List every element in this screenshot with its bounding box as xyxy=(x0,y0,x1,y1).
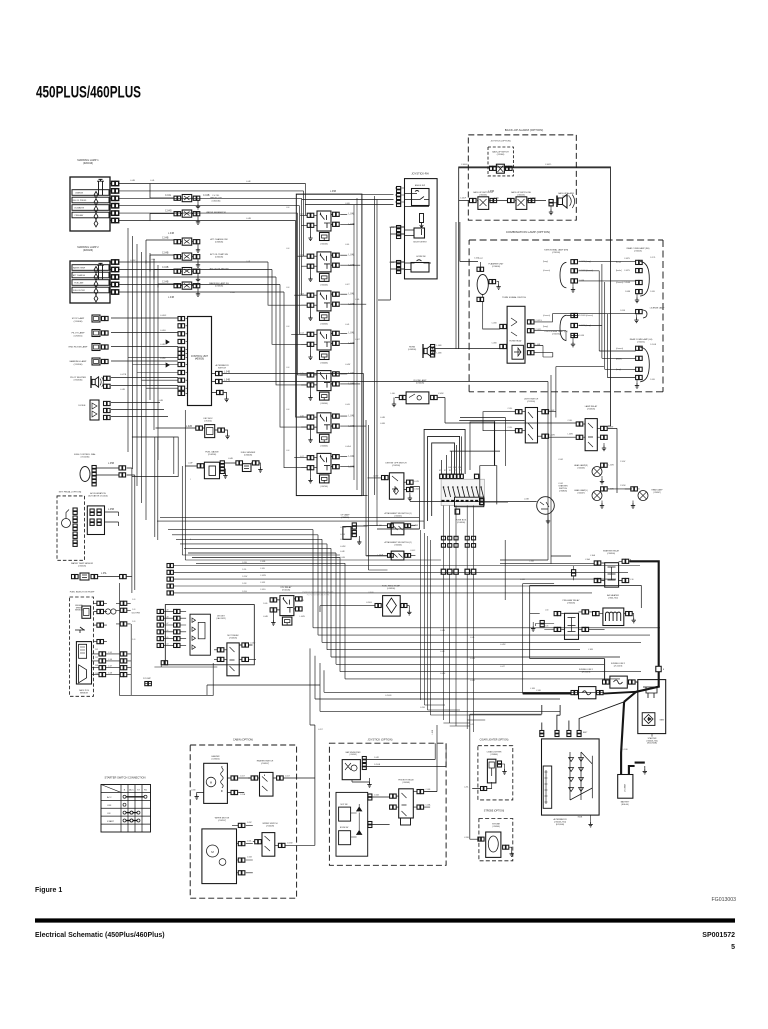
key pedal option dashed box xyxy=(57,491,85,561)
svg-text:L.05LB: L.05LB xyxy=(366,602,372,604)
icu relay (#50106) xyxy=(263,586,305,625)
key box unit xyxy=(186,418,230,439)
svg-text:L.04: L.04 xyxy=(286,450,289,452)
svg-text:CONTROL UNIT: CONTROL UNIT xyxy=(191,356,209,358)
relay column right wires xyxy=(331,214,366,466)
svg-text:C.08: C.08 xyxy=(165,616,168,618)
back-up alarm option dashed box xyxy=(468,128,576,220)
pld bus verticals xyxy=(421,530,542,715)
svg-text:L.04LA: L.04LA xyxy=(345,445,351,448)
fusible link 1 (#2006) xyxy=(523,669,636,699)
svg-text:START: START xyxy=(107,820,115,823)
footer rule bar xyxy=(35,918,735,922)
svg-text:C.50W: C.50W xyxy=(620,461,626,463)
svg-text:C.05GB [chassis]: C.05GB [chassis] xyxy=(579,315,593,317)
splice connector above preheat xyxy=(572,570,576,573)
relay START RELAY (#50406) xyxy=(300,330,355,365)
wire dr to aux relay xyxy=(154,661,217,667)
svg-text:(#50306): (#50306) xyxy=(74,380,83,382)
svg-text:L.04B: L.04B xyxy=(340,534,346,536)
svg-text:(#50307): (#50307) xyxy=(261,763,269,765)
svg-text:L.04W: L.04W xyxy=(160,358,166,360)
svg-text:C.05GB: C.05GB xyxy=(624,282,631,284)
svg-text:(#50606): (#50606) xyxy=(320,445,328,447)
strobe option dashed box xyxy=(464,811,514,861)
svg-text:(E11,E06): (E11,E06) xyxy=(556,824,565,826)
op lamp (#30306) xyxy=(341,514,368,545)
relay column bottom edge wires xyxy=(296,495,367,497)
svg-text:L.04B: L.04B xyxy=(230,292,236,294)
svg-text:C.09B: C.09B xyxy=(260,561,266,563)
svg-text:C.06LF: C.06LF xyxy=(460,198,467,200)
svg-text:L.05L: L.05L xyxy=(101,573,107,575)
svg-text:L.30B: L.30B xyxy=(588,649,594,651)
svg-text:L.30: L.30 xyxy=(630,579,634,581)
svg-text:STARTER SWITCH CONNECTION: STARTER SWITCH CONNECTION xyxy=(105,776,146,780)
svg-text:L.05B: L.05B xyxy=(108,509,114,511)
svg-text:L.04: L.04 xyxy=(286,248,289,250)
wiper bank vertical runs to bottom xyxy=(443,720,485,726)
left bundle horizontal stubs to pins xyxy=(128,357,178,388)
joystick-rh horn switch lower xyxy=(405,256,432,272)
horn wire to turn signal switch xyxy=(435,349,500,353)
svg-text:(#1006): (#1006) xyxy=(204,421,211,423)
svg-text:C.06TL: C.06TL xyxy=(545,164,552,166)
load MARKING LAMP xyxy=(70,358,108,366)
svg-text:(#30256): (#30256) xyxy=(517,194,525,196)
svg-text:(#50206): (#50206) xyxy=(208,454,217,456)
svg-text:(#300-T30): (#300-T30) xyxy=(608,597,618,599)
eng control dial (#51006) xyxy=(74,453,135,486)
relay HEAT RELAY (#50606) xyxy=(300,413,355,448)
svg-text:(#20406): (#20406) xyxy=(416,383,425,385)
battery (E04) xyxy=(618,702,647,806)
trunk verticals center xyxy=(155,410,186,560)
svg-text:L.04B: L.04B xyxy=(168,297,174,299)
water temp sensor xyxy=(71,562,132,580)
svg-text:BACK-UP ALARM (OPTION): BACK-UP ALARM (OPTION) xyxy=(505,128,544,132)
svg-text:L.20B: L.20B xyxy=(464,837,469,839)
svg-text:L.05T: L.05T xyxy=(318,729,324,731)
turn signal lamp lh xyxy=(544,313,593,346)
bus lower extra horizontals xyxy=(207,685,604,711)
svg-text:C.06B: C.06B xyxy=(579,335,585,337)
svg-text:C.05: C.05 xyxy=(108,652,112,654)
joystick option feed verticals xyxy=(424,725,446,792)
svg-text:(#50508): (#50508) xyxy=(402,782,410,784)
svg-text:(#50408): (#50408) xyxy=(266,825,274,827)
starter relay B+ cable xyxy=(629,561,658,692)
wire run lamp area bottom xyxy=(366,529,419,556)
svg-text:[lamp]: [lamp] xyxy=(543,261,548,263)
svg-text:(#50206): (#50206) xyxy=(320,284,328,286)
svg-text:L.03B: L.03B xyxy=(524,499,529,501)
svg-text:[brake]: [brake] xyxy=(616,270,622,272)
svg-text:L.04B: L.04B xyxy=(437,345,443,347)
wires loads to control unit pins xyxy=(111,318,178,417)
svg-text:L.05LB: L.05LB xyxy=(368,592,374,594)
svg-text:(#50406): (#50406) xyxy=(320,363,328,365)
svg-text:(E04-04): (E04-04) xyxy=(621,804,629,806)
svg-text:ATT OIL FILTER SW: ATT OIL FILTER SW xyxy=(209,268,228,271)
load STOP LAMP xyxy=(72,315,108,323)
svg-text:L.30A: L.30A xyxy=(590,554,596,557)
svg-text:[chassis]: [chassis] xyxy=(616,282,623,284)
water separator switch cluster xyxy=(165,210,226,224)
svg-text:L.04W: L.04W xyxy=(130,260,136,262)
svg-text:L.04L: L.04L xyxy=(470,637,475,639)
svg-text:C.09G: C.09G xyxy=(260,589,266,591)
svg-text:CHARGE: CHARGE xyxy=(75,192,84,195)
svg-text:L.06L: L.06L xyxy=(355,299,360,301)
svg-text:[brake]: [brake] xyxy=(616,359,622,361)
svg-text:FG013003: FG013003 xyxy=(711,897,736,903)
B+ cable inline connector xyxy=(656,666,661,671)
svg-text:C.09F: C.09F xyxy=(242,583,247,585)
svg-text:L.07B: L.07B xyxy=(414,481,419,483)
fuel pump connector column 2 xyxy=(116,601,140,626)
svg-text:L.06W: L.06W xyxy=(568,433,573,435)
control unit left pin connectors xyxy=(178,317,188,396)
thick feed from fusible junction xyxy=(624,692,636,702)
svg-text:(#50506): (#50506) xyxy=(394,544,402,546)
center long feeders xyxy=(364,500,388,570)
fuel pump connector column 1 xyxy=(93,601,107,644)
power feed solid box backup area xyxy=(459,167,611,426)
joystick option switch block xyxy=(336,792,390,856)
right trunk verticals xyxy=(364,196,378,570)
svg-text:(#20306): (#20306) xyxy=(497,154,505,156)
light switch area enclosure lines xyxy=(460,418,505,467)
attachment sw switch 2 xyxy=(367,541,416,560)
svg-text:L.05GB: L.05GB xyxy=(385,695,392,697)
alternator feed wires xyxy=(542,702,624,731)
svg-text:C.09G: C.09G xyxy=(242,591,248,593)
turn signal switch output wires xyxy=(535,314,567,357)
svg-text:[chassis]: [chassis] xyxy=(616,348,623,350)
pre-heat relay (#30506) xyxy=(545,599,605,639)
svg-text:HORN RELAY: HORN RELAY xyxy=(509,340,522,343)
switch cluster ATT OIL TEMP SW xyxy=(162,253,228,268)
svg-text:C.05B: C.05B xyxy=(620,310,626,312)
svg-text:(#50306): (#50306) xyxy=(587,408,595,410)
starter switch connection table xyxy=(101,776,151,833)
svg-text:C.05B: C.05B xyxy=(492,323,498,325)
svg-text:WATER TEMP: WATER TEMP xyxy=(73,267,86,270)
joystick option dashed box xyxy=(329,738,446,866)
svg-text:L.05: L.05 xyxy=(470,724,474,726)
back-up alarm speaker (#20206) xyxy=(549,192,575,215)
diode symbols on control unit inputs xyxy=(166,340,169,367)
load PILOT LAMP xyxy=(72,330,109,338)
svg-text:C.04B: C.04B xyxy=(162,238,169,240)
svg-text:L.50W: L.50W xyxy=(438,393,444,395)
svg-text:L.05: L.05 xyxy=(545,626,548,628)
svg-text:L.04MF: L.04MF xyxy=(340,527,347,529)
svg-text:L.04B: L.04B xyxy=(158,400,164,402)
svg-text:L.04: L.04 xyxy=(286,326,289,328)
svg-text:PRESS SW: PRESS SW xyxy=(210,198,222,200)
priority relay (#50508) xyxy=(390,779,437,826)
svg-text:C.06B: C.06B xyxy=(492,343,498,345)
svg-text:L.04F: L.04F xyxy=(246,181,252,183)
svg-text:C.09TL: C.09TL xyxy=(624,258,630,260)
switch cluster ATT CHARGE SW xyxy=(162,238,228,253)
svg-text:L.04: L.04 xyxy=(286,367,289,369)
svg-text:C.06TL: C.06TL xyxy=(530,198,536,200)
svg-text:C.09W: C.09W xyxy=(242,576,248,578)
svg-text:C.06B: C.06B xyxy=(625,291,631,293)
horn relay inside switch xyxy=(509,340,523,360)
cigar lighter option dashed box xyxy=(464,739,513,800)
svg-text:[lamp]: [lamp] xyxy=(543,326,548,328)
svg-text:C.05GB: C.05GB xyxy=(650,344,657,346)
svg-text:ACTUATOR (#51106): ACTUATOR (#51106) xyxy=(88,494,108,497)
rack connector rows xyxy=(92,652,132,677)
svg-text:L.10B: L.10B xyxy=(623,749,628,751)
combination lamp cross wires xyxy=(543,262,636,378)
accel actuator (#51106) xyxy=(87,492,118,535)
svg-text:(#50903): (#50903) xyxy=(349,754,357,756)
attachment off switch (#50906) xyxy=(367,512,419,535)
svg-text:L.04B: L.04B xyxy=(263,616,268,618)
svg-text:(#20016): (#20016) xyxy=(83,162,93,165)
control unit right output wires xyxy=(212,371,549,401)
svg-text:CN2: CN2 xyxy=(95,657,98,659)
diode block xyxy=(79,400,111,420)
wiper bank connector bottom row xyxy=(441,506,476,733)
svg-text:M: M xyxy=(210,781,212,785)
feed wires to starter relay xyxy=(500,540,594,694)
aux relay (#50306) xyxy=(214,634,256,676)
p-comp wire and bottom run xyxy=(120,468,214,695)
backup feed wire xyxy=(459,164,610,168)
starter switch (#30806) xyxy=(410,485,568,524)
svg-text:SP001572: SP001572 xyxy=(702,932,735,939)
dr unit connector bank xyxy=(157,609,186,647)
rear lamp (#20307) xyxy=(620,485,663,508)
svg-text:(#20026): (#20026) xyxy=(83,249,93,252)
svg-text:L.04W: L.04W xyxy=(300,616,305,618)
svg-text:(#20207): (#20207) xyxy=(577,492,585,494)
joystick option inner dashed box xyxy=(488,141,513,176)
rear comb lamp rh (#20201) xyxy=(616,247,650,303)
svg-text:L.04L: L.04L xyxy=(345,324,350,326)
svg-text:(#20206): (#20206) xyxy=(577,467,585,469)
svg-text:C.05W: C.05W xyxy=(287,843,293,845)
svg-text:CIGAR LIGHTER (OPTION): CIGAR LIGHTER (OPTION) xyxy=(480,739,509,742)
svg-text:FUEL FILTER: FUEL FILTER xyxy=(73,290,85,292)
svg-text:C.05TL: C.05TL xyxy=(624,270,630,272)
combination lamp option dashed box xyxy=(469,230,663,392)
svg-text:STOP LAMP: STOP LAMP xyxy=(72,317,85,320)
svg-text:L.04G: L.04G xyxy=(340,557,346,559)
wire room lamp to lamp relay xyxy=(445,422,576,424)
joystick option buzzer switch xyxy=(342,751,446,787)
svg-text:C.05L: C.05L xyxy=(508,427,513,429)
rear comb lamp lh (#20251) xyxy=(616,338,653,388)
svg-text:ENG CONTROL DIAL: ENG CONTROL DIAL xyxy=(74,453,96,456)
svg-text:C.06L: C.06L xyxy=(568,420,573,422)
svg-text:L.04B: L.04B xyxy=(380,417,386,419)
starter relay (#30306) xyxy=(585,550,634,588)
svg-text:L.04LF: L.04LF xyxy=(410,550,415,552)
relay MAIN RELAY (#50706) xyxy=(300,453,355,488)
svg-text:(#50706): (#50706) xyxy=(320,486,328,488)
svg-text:(#20906): (#20906) xyxy=(492,826,500,828)
svg-text:(#20806): (#20806) xyxy=(490,754,498,756)
svg-text:500 RPM: 500 RPM xyxy=(132,613,141,615)
dr unit outer box xyxy=(165,605,254,665)
eng dial wiring loop box xyxy=(132,437,178,477)
svg-text:L.04TB: L.04TB xyxy=(120,374,127,376)
cabin feed vertical xyxy=(314,725,316,845)
svg-text:L.05B: L.05B xyxy=(420,707,426,709)
svg-text:MARKING LAMP: MARKING LAMP xyxy=(70,360,87,363)
svg-text:(#30506): (#30506) xyxy=(567,602,575,604)
svg-text:C.07: C.07 xyxy=(165,623,168,625)
battery cable junction xyxy=(624,692,638,702)
wires joystick-rh to combination area xyxy=(378,227,405,300)
fuse box label connector xyxy=(455,509,467,524)
svg-text:L.04G: L.04G xyxy=(470,658,476,660)
svg-text:L.04W: L.04W xyxy=(340,546,346,548)
back-up switch rh (#30256) xyxy=(508,191,535,209)
svg-text:L.04L: L.04L xyxy=(150,180,155,182)
svg-text:L.50W: L.50W xyxy=(558,483,563,485)
svg-text:PILOT LAMP: PILOT LAMP xyxy=(72,332,85,335)
wiper motor (#50207) xyxy=(202,818,253,884)
svg-text:L.05B: L.05B xyxy=(108,463,114,465)
svg-text:(#20516): (#20516) xyxy=(74,335,83,337)
svg-text:BOOM SW: BOOM SW xyxy=(340,827,349,829)
svg-text:(#20606): (#20606) xyxy=(211,758,219,760)
svg-text:(#20406): (#20406) xyxy=(492,266,501,268)
svg-text:(#51006): (#51006) xyxy=(81,457,90,459)
svg-text:C.05GB: C.05GB xyxy=(374,764,381,766)
svg-text:C.05L: C.05L xyxy=(247,841,252,843)
head lamp lh (#20207) xyxy=(574,487,632,508)
svg-text:L.04W: L.04W xyxy=(345,364,350,366)
svg-text:(#50106): (#50106) xyxy=(282,590,291,592)
marking lamp 1 block (#20016) xyxy=(70,159,119,231)
svg-text:L.04G: L.04G xyxy=(150,259,156,261)
detent off switch (#50206) xyxy=(368,463,420,501)
svg-text:L.06B: L.06B xyxy=(437,353,443,355)
svg-text:C.04B: C.04B xyxy=(203,195,210,197)
svg-text:L.04B: L.04B xyxy=(228,458,233,460)
marking lamp 2 block (#20026) xyxy=(70,246,119,303)
svg-text:(#51506): (#51506) xyxy=(527,401,535,403)
svg-text:L.50W: L.50W xyxy=(550,434,555,436)
svg-text:(#20201): (#20201) xyxy=(634,250,642,252)
svg-text:L.04: L.04 xyxy=(286,207,289,209)
svg-text:(#50306): (#50306) xyxy=(457,522,466,524)
svg-text:JOYSTICK (OPTION): JOYSTICK (OPTION) xyxy=(490,141,510,143)
control unit box (#50006) xyxy=(188,317,212,406)
wires cluster group 2 to left bus xyxy=(146,240,174,288)
svg-text:(#50306): (#50306) xyxy=(229,637,237,639)
svg-text:(#30806): (#30806) xyxy=(559,490,567,492)
wire bundle nested rectangles xyxy=(377,421,525,529)
svg-text:L.06B: L.06B xyxy=(520,579,526,581)
svg-text:C.04: C.04 xyxy=(165,644,168,646)
svg-text:C.04B: C.04B xyxy=(162,253,169,255)
starter (#30006) xyxy=(638,680,666,745)
svg-text:L.04L: L.04L xyxy=(300,600,305,602)
svg-text:(#20106): (#20106) xyxy=(552,252,560,254)
svg-text:(#40306): (#40306) xyxy=(387,588,396,590)
svg-text:5: 5 xyxy=(731,944,735,951)
svg-text:SWITCH: SWITCH xyxy=(218,367,226,369)
inductor circles on speed sensor wire xyxy=(105,609,110,614)
svg-text:L.04B: L.04B xyxy=(130,180,136,182)
svg-text:L.20L: L.20L xyxy=(464,787,469,789)
svg-text:PREHEAT: PREHEAT xyxy=(75,214,85,217)
back-up switch lh (#30206) xyxy=(470,191,497,209)
svg-text:L.06B: L.06B xyxy=(380,423,386,425)
relay ACC RELAY (#50506) xyxy=(300,371,355,406)
joystick-rh pin connectors left xyxy=(389,187,405,274)
svg-text:L.04L: L.04L xyxy=(391,393,396,395)
svg-text:DIODE: DIODE xyxy=(79,405,86,407)
svg-text:L.04G: L.04G xyxy=(345,404,350,406)
strobe feed vertical xyxy=(470,714,542,839)
svg-text:C.07: C.07 xyxy=(108,666,112,668)
svg-text:(#20251): (#20251) xyxy=(637,341,645,343)
horn (#40306) xyxy=(408,344,442,358)
second vertical to horn wire xyxy=(455,222,457,349)
svg-text:STROBE (OPTION): STROBE (OPTION) xyxy=(484,811,505,813)
relay WIPER RELAY (#50206) xyxy=(300,252,355,287)
air heater (#30706) xyxy=(593,594,636,626)
joystick-rh box xyxy=(405,172,438,279)
wires oil pressure to bus xyxy=(150,184,174,221)
svg-text:C.06LF: C.06LF xyxy=(461,164,468,166)
svg-text:L.04T: L.04T xyxy=(500,666,506,668)
svg-text:P.COMP: P.COMP xyxy=(143,678,151,680)
svg-text:L.04F: L.04F xyxy=(340,551,346,553)
svg-text:C.09L: C.09L xyxy=(260,568,265,570)
lamp relay output vertical xyxy=(608,428,617,493)
svg-text:ON: ON xyxy=(107,813,111,815)
svg-text:C.09: C.09 xyxy=(165,610,168,612)
svg-text:ATT CHARGE: ATT CHARGE xyxy=(73,274,86,277)
svg-text:C.06L: C.06L xyxy=(263,603,268,605)
svg-text:L.04F: L.04F xyxy=(440,651,446,653)
svg-text:(#AC-DR2): (#AC-DR2) xyxy=(216,617,226,620)
svg-text:C.09TL: C.09TL xyxy=(650,257,656,259)
svg-text:L.10B: L.10B xyxy=(530,688,536,690)
top wires relay column to joystick-rh xyxy=(296,191,494,205)
svg-text:L.30A: L.30A xyxy=(585,558,590,561)
bus staircase lower horizontals xyxy=(313,628,660,679)
svg-text:Electrical Schematic (450Plus/: Electrical Schematic (450Plus/460Plus) xyxy=(35,932,165,939)
svg-text:(#20307): (#20307) xyxy=(653,492,661,494)
backup row wire xyxy=(459,198,546,201)
svg-text:JOYSTICK (OPTION): JOYSTICK (OPTION) xyxy=(367,738,392,742)
column inner verticals xyxy=(354,198,357,490)
svg-text:WATER SEPARATOR: WATER SEPARATOR xyxy=(206,211,226,214)
switch cluster ATT OIL FILTER SW xyxy=(162,267,229,282)
svg-text:(#40306): (#40306) xyxy=(408,349,417,351)
svg-text:L.04W: L.04W xyxy=(500,644,506,646)
fuel gauge (#50206) xyxy=(185,451,230,479)
wires marking lamp 2 to lower relay feeders xyxy=(119,262,308,468)
wiper switch bank connector row xyxy=(440,474,479,478)
pilot buzzer (#50306) xyxy=(70,376,110,388)
head lamp rh (#20206) xyxy=(574,463,614,484)
